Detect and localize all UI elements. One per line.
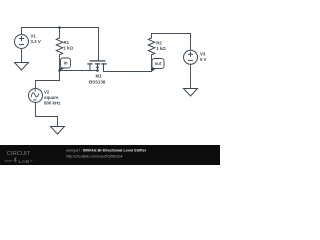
svg-text:V1: V1 [31,34,37,39]
voltage source V2 [29,89,43,103]
wire in node horizontal to M1 source [60,70,98,72]
label V3 value [200,51,207,62]
label V1 value [31,34,41,45]
node label out [151,59,164,72]
node label in [59,58,70,71]
ground for V1 [15,63,29,71]
resistor R2 [148,38,154,55]
wire V2 bottom to ground [36,103,58,127]
svg-text:1 kΩ: 1 kΩ [156,46,166,51]
svg-text:3.3 V: 3.3 V [31,39,41,44]
ground for V2 [51,127,65,135]
junction dot M1 body-source [96,69,99,72]
svg-text:in: in [64,61,68,66]
svg-text:elengart : 900KHz Bi-Direction: elengart : 900KHz Bi-Directional Level S… [66,149,147,153]
wire R2 top lead [151,34,153,39]
wire gate lead [98,28,100,61]
wire R1 top lead [59,28,61,39]
svg-text:R2: R2 [156,41,162,46]
wire R2 to V3 top [152,34,191,51]
label V2 value [44,89,61,105]
svg-text:http://circuitlab.com/c/pu57y6: http://circuitlab.com/c/pu57y66b2a4 [66,154,123,158]
wire V1 bottom to ground [21,49,23,63]
wire corner to V2 top [36,81,60,89]
wire M1 drain to R2 bottom [104,55,152,72]
svg-text:800 kHz: 800 kHz [44,101,61,106]
resistor R1 [56,38,62,55]
junction dot node in [58,69,61,72]
label R1 value [64,40,74,50]
footer bar [0,145,220,165]
svg-text:out: out [155,61,162,66]
svg-text:square: square [44,95,59,100]
ground for V3 [184,89,198,97]
svg-text:BSS138: BSS138 [89,79,106,84]
junction dot node A (rail/R1) [58,26,61,29]
svg-text:LAB: LAB [18,159,29,164]
mosfet M1 BSS138 [87,61,106,72]
voltage source V3 [184,50,198,64]
svg-text:1 kΩ: 1 kΩ [64,45,74,50]
svg-text:R1: R1 [64,40,70,45]
label R2 value [156,41,166,51]
voltage source V1 [15,35,29,49]
wire R1 bottom lead down to corner [59,55,61,81]
wire V3 bottom to ground [190,64,192,88]
wire top-left rail V1 to gate [22,27,99,29]
svg-text:M1: M1 [96,74,103,79]
svg-text:V2: V2 [44,89,50,94]
svg-text:CIRCUIT: CIRCUIT [7,151,31,157]
footer logo CIRCUIT LAB [5,151,33,164]
wire V1 top lead [21,28,23,35]
label M1 [89,74,106,85]
svg-text:V3: V3 [200,51,206,56]
svg-text:5 V: 5 V [200,57,207,62]
M1 body arrow [96,65,99,68]
